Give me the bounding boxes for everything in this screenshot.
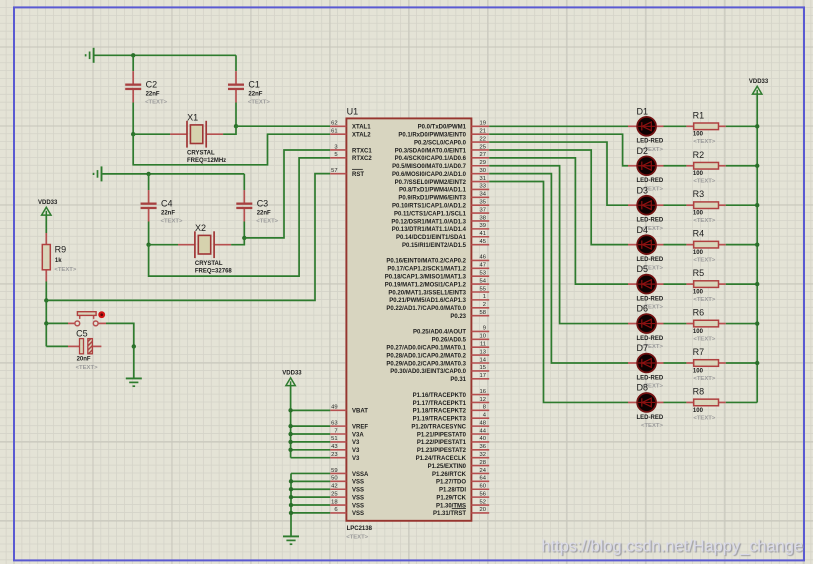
svg-text:6: 6 — [334, 507, 337, 513]
wire top rail ground to C1 — [95, 54, 237, 56]
svg-text:FREQ=12MHz: FREQ=12MHz — [187, 158, 226, 164]
svg-text:P1.23/PIPESTAT2: P1.23/PIPESTAT2 — [417, 448, 467, 454]
svg-text:P1.31/TRST: P1.31/TRST — [433, 511, 466, 517]
pin 31 P0.7 — [395, 176, 490, 186]
svg-text:P0.6/MOSI0/CAP0.2/AD1.0: P0.6/MOSI0/CAP0.2/AD1.0 — [392, 172, 467, 178]
pin 35 P0.10 — [392, 200, 489, 210]
svg-text:VSSA: VSSA — [352, 472, 369, 478]
power VDD33 (LED rail) — [749, 79, 769, 94]
svg-text:LED-RED: LED-RED — [637, 178, 664, 184]
svg-text:100: 100 — [693, 211, 704, 217]
svg-text:P0.27/AD0.0/CAP0.1/MAT0.1: P0.27/AD0.0/CAP0.1/MAT0.1 — [386, 346, 466, 352]
resistor R5 — [686, 268, 725, 303]
svg-text:D4: D4 — [637, 225, 649, 235]
svg-text:P0.16/EINT0/MAT0.2/CAP0.2: P0.16/EINT0/MAT0.2/CAP0.2 — [386, 259, 466, 265]
pin 3 RTXC1 — [330, 144, 372, 154]
wire junction to ground — [133, 346, 135, 378]
svg-text:27: 27 — [480, 152, 486, 158]
capacitor C5 (polarized) — [68, 328, 101, 371]
wire C1 bottom to XTAL1 node — [235, 103, 237, 127]
svg-text:7: 7 — [334, 428, 337, 434]
svg-text:https://blog.csdn.net/Happy_ch: https://blog.csdn.net/Happy_change — [541, 538, 803, 556]
pin 57 RST — [330, 168, 364, 178]
svg-text:100: 100 — [693, 329, 704, 335]
pin 34 P0.9 — [398, 192, 489, 202]
svg-text:D2: D2 — [637, 146, 649, 156]
svg-text:48: 48 — [480, 420, 486, 426]
wire XTAL1 node to pin 62 — [236, 125, 330, 127]
svg-text:19: 19 — [480, 121, 486, 127]
crystal X2 — [178, 223, 232, 275]
wire C4 bottom to X2 junction — [148, 222, 150, 245]
pin 25 VSS — [330, 491, 364, 501]
svg-text:<TEXT>: <TEXT> — [248, 99, 270, 105]
svg-text:20: 20 — [480, 507, 486, 513]
svg-text:53: 53 — [480, 271, 486, 277]
svg-text:P1.19/TRACEPKT3: P1.19/TRACEPKT3 — [413, 417, 467, 423]
pin 5 RTXC2 — [330, 152, 372, 162]
svg-text:11: 11 — [480, 342, 486, 348]
wire VDD33 rail vertical — [290, 385, 292, 457]
svg-text:<TEXT>: <TEXT> — [76, 365, 98, 371]
svg-text:<TEXT>: <TEXT> — [145, 99, 167, 105]
pin 53 P0.18 — [385, 271, 489, 281]
svg-text:22nF: 22nF — [146, 91, 160, 97]
wire pin to D7 — [489, 174, 628, 363]
svg-text:P0.13/DTR1/MAT1.1/AD1.4: P0.13/DTR1/MAT1.1/AD1.4 — [392, 227, 467, 233]
svg-text:59: 59 — [331, 468, 337, 474]
svg-text:100: 100 — [693, 290, 704, 296]
svg-text:P0.9/RxD1/PWM6/EINT3: P0.9/RxD1/PWM6/EINT3 — [398, 196, 466, 202]
svg-text:<TEXT>: <TEXT> — [54, 267, 76, 273]
pin 48 P1.20 — [411, 420, 489, 430]
svg-text:P1.25/EXTIN0: P1.25/EXTIN0 — [428, 464, 467, 470]
pin 51 V3 — [330, 436, 360, 446]
node junction C2/X1 left — [131, 132, 135, 136]
svg-text:63: 63 — [331, 420, 337, 426]
node junction VSS rail — [289, 503, 293, 507]
svg-text:47: 47 — [480, 263, 486, 269]
node junction VSS rail — [289, 487, 293, 491]
pin 30 P0.6 — [392, 168, 489, 178]
svg-text:1k: 1k — [55, 258, 62, 264]
svg-text:49: 49 — [331, 405, 337, 411]
pin 58 P0.23 — [450, 310, 489, 320]
pin 50 VSS — [330, 476, 364, 486]
pin 14 P0.29 — [386, 357, 489, 367]
pin 47 P0.17 — [387, 263, 489, 273]
pin 19 P0.0 — [418, 121, 490, 131]
node junction button tap — [44, 321, 48, 325]
wire RST net to pin 57 — [46, 174, 330, 301]
wire down to C5 row — [45, 323, 47, 346]
pin 60 P1.28 — [439, 484, 489, 494]
svg-text:P0.19/MAT1.2/MOSI1/CAP1.2: P0.19/MAT1.2/MOSI1/CAP1.2 — [385, 282, 467, 288]
svg-text:<TEXT>: <TEXT> — [693, 297, 715, 303]
svg-text:22nF: 22nF — [161, 210, 175, 216]
wire D6 to R6 — [664, 323, 687, 325]
svg-text:R4: R4 — [693, 229, 705, 239]
svg-text:21: 21 — [480, 128, 486, 134]
pin 49 VBAT — [330, 405, 368, 415]
svg-text:30: 30 — [480, 168, 486, 174]
svg-text:P0.18/CAP1.3/MISO1/MAT1.3: P0.18/CAP1.3/MISO1/MAT1.3 — [385, 275, 467, 281]
resistor R9 — [42, 233, 77, 282]
pin 24 P1.26 — [432, 468, 489, 478]
pin 11 P0.27 — [386, 342, 489, 352]
wire XTAL2 route to pin 61 — [133, 134, 330, 165]
svg-text:P0.15/RI1/EINT2/AD1.5: P0.15/RI1/EINT2/AD1.5 — [402, 243, 467, 249]
node junction R9/RST — [44, 298, 48, 302]
wire X1 right jog to XTAL1 node — [223, 126, 236, 134]
svg-text:R2: R2 — [693, 150, 705, 160]
capacitor C2 — [125, 71, 167, 105]
svg-text:51: 51 — [331, 436, 337, 442]
svg-text:22nF: 22nF — [248, 91, 262, 97]
capacitor C4 — [141, 190, 183, 224]
svg-text:35: 35 — [480, 200, 486, 206]
svg-text:C4: C4 — [161, 198, 173, 208]
svg-text:45: 45 — [480, 239, 486, 245]
svg-text:57: 57 — [331, 168, 337, 174]
svg-text:<TEXT>: <TEXT> — [693, 257, 715, 263]
svg-text:C1: C1 — [248, 79, 260, 89]
wire C4 top — [148, 174, 150, 190]
svg-text:62: 62 — [331, 121, 337, 127]
svg-text:10: 10 — [480, 334, 486, 340]
svg-text:P0.26/AD0.5: P0.26/AD0.5 — [432, 338, 467, 344]
node junction LED rail — [755, 361, 759, 365]
pin 7 V3A — [330, 428, 364, 438]
svg-text:P1.17/TRACEPKT1: P1.17/TRACEPKT1 — [413, 401, 467, 407]
svg-text:60: 60 — [480, 484, 486, 490]
pin 41 P0.14 — [396, 231, 489, 241]
svg-text:RST: RST — [352, 172, 364, 178]
svg-text:LED-RED: LED-RED — [637, 375, 664, 381]
wire VDD33 to pin row 40 — [291, 441, 331, 443]
wire VSS to pin row 46 — [291, 488, 330, 490]
wire to C5 left lead — [46, 345, 68, 347]
wire R8 to rail — [726, 401, 757, 403]
node junction C4 top — [146, 172, 150, 176]
wire X1 left lead to junction — [133, 133, 170, 135]
svg-text:VSS: VSS — [352, 480, 364, 486]
svg-text:P0.12/DSR1/MAT1.0/AD1.3: P0.12/DSR1/MAT1.0/AD1.3 — [391, 219, 466, 225]
node junction VDD rail — [288, 440, 292, 444]
svg-text:XTAL2: XTAL2 — [352, 132, 371, 138]
node junction VSS rail — [289, 495, 293, 499]
svg-text:FREQ=32768: FREQ=32768 — [195, 268, 233, 274]
svg-text:P0.23: P0.23 — [450, 314, 466, 320]
svg-text:P0.17/CAP1.2/SCK1/MAT1.2: P0.17/CAP1.2/SCK1/MAT1.2 — [387, 267, 466, 273]
node junction C5/button ground — [132, 344, 136, 348]
pin 45 P0.15 — [402, 239, 489, 249]
svg-text:RTXC2: RTXC2 — [352, 156, 372, 162]
resistor R2 — [686, 150, 725, 185]
svg-text:22: 22 — [480, 136, 486, 142]
wire R9 bottom to RST node — [45, 282, 47, 301]
svg-text:LED-RED: LED-RED — [637, 336, 664, 342]
pin 20 P1.31 — [433, 507, 489, 517]
wire R2 to rail — [726, 165, 757, 167]
svg-text:41: 41 — [480, 231, 486, 237]
wire D5 to R5 — [664, 283, 687, 285]
svg-text:R3: R3 — [693, 189, 705, 199]
pin 33 P0.8 — [399, 184, 489, 194]
pin 62 XTAL1 — [330, 121, 371, 131]
capacitor C2 leads-wire top — [132, 55, 134, 71]
wire VSS to pin row 47 — [291, 496, 330, 498]
svg-text:43: 43 — [331, 444, 337, 450]
svg-text:P0.10/RTS1/CAP1.0/AD1.2: P0.10/RTS1/CAP1.0/AD1.2 — [392, 204, 467, 210]
resistor R3 — [686, 189, 725, 224]
pin 4 P1.19 — [413, 413, 490, 423]
svg-text:VDD33: VDD33 — [749, 79, 769, 85]
svg-text:<TEXT>: <TEXT> — [161, 218, 183, 224]
pin 25 P0.3 — [395, 144, 489, 154]
svg-text:<TEXT>: <TEXT> — [641, 423, 663, 429]
svg-text:P0.29/AD0.2/CAP0.3/MAT0.3: P0.29/AD0.2/CAP0.3/MAT0.3 — [386, 361, 466, 367]
wire pin to D4 — [489, 150, 628, 245]
wire down to button — [45, 300, 47, 323]
svg-text:R1: R1 — [693, 110, 705, 120]
svg-text:VSS: VSS — [352, 495, 364, 501]
wire VDD33 to pin row 42 — [291, 457, 331, 459]
pin 56 P1.29 — [436, 491, 489, 501]
LED D6 — [628, 304, 664, 351]
push button (reset) — [68, 311, 106, 325]
wire pin to D3 — [489, 142, 628, 205]
pin 39 P0.13 — [392, 223, 489, 233]
wire C3 bottom to RTXC1 node — [243, 222, 245, 238]
svg-text:D8: D8 — [637, 383, 649, 393]
svg-text:P1.18/TRACEPKT2: P1.18/TRACEPKT2 — [413, 409, 467, 415]
svg-text:55: 55 — [480, 286, 486, 292]
svg-text:28: 28 — [480, 460, 486, 466]
svg-text:12: 12 — [480, 397, 486, 403]
svg-text:P0.1/RxD0/PWM3/EINT0: P0.1/RxD0/PWM3/EINT0 — [398, 132, 466, 138]
node junction C2 top — [131, 53, 135, 57]
svg-text:CRYSTAL: CRYSTAL — [187, 151, 215, 157]
node junction LED rail — [755, 321, 759, 325]
node junction C4/X2 left/RTXC2 — [146, 243, 150, 247]
svg-text:D5: D5 — [637, 264, 649, 274]
svg-text:P0.11/CTS1/CAP1.1/SCL1: P0.11/CTS1/CAP1.1/SCL1 — [394, 211, 467, 217]
wire R7 to rail — [726, 362, 757, 364]
wire pin to D5 — [489, 158, 628, 284]
svg-text:LED-RED: LED-RED — [637, 139, 664, 145]
svg-text:VDD33: VDD33 — [282, 371, 302, 377]
node junction LED rail — [755, 242, 759, 246]
pin 21 P0.1 — [398, 128, 489, 138]
ground (C5) — [126, 378, 142, 386]
svg-text:25: 25 — [480, 144, 486, 150]
svg-text:V3: V3 — [352, 456, 360, 462]
pin 9 P0.25 — [413, 326, 489, 336]
wire C2 bottom to X1 junction — [132, 103, 134, 135]
svg-text:P0.22/AD1.7/CAP0.0/MAT0.0: P0.22/AD1.7/CAP0.0/MAT0.0 — [386, 306, 466, 312]
wire VDD33 to pin row 36 — [291, 409, 331, 411]
svg-text:50: 50 — [331, 476, 337, 482]
pin 40 P1.22 — [417, 436, 489, 446]
svg-text:P0.20/MAT1.3/SSEL1/EINT3: P0.20/MAT1.3/SSEL1/EINT3 — [388, 290, 466, 296]
svg-text:17: 17 — [480, 373, 486, 379]
wire VDD33 to pin row 41 — [291, 449, 331, 451]
svg-text:8: 8 — [483, 405, 486, 411]
svg-text:44: 44 — [480, 428, 487, 434]
svg-text:X2: X2 — [195, 223, 206, 233]
resistor R7 — [686, 347, 725, 382]
svg-text:VSS: VSS — [352, 503, 364, 509]
svg-text:XTAL1: XTAL1 — [352, 125, 371, 131]
wire D3 to R3 — [664, 204, 687, 206]
svg-text:16: 16 — [480, 389, 486, 395]
crystal X1 — [170, 112, 226, 164]
svg-text:15: 15 — [480, 365, 486, 371]
svg-text:14: 14 — [480, 357, 487, 363]
wire D1 to R1 — [664, 125, 687, 127]
power VDD33 (IC supply) — [282, 371, 302, 386]
pin 61 XTAL2 — [330, 128, 371, 138]
capacitor C1 — [228, 71, 270, 105]
ground (top-left rail) — [86, 48, 94, 63]
svg-text:R9: R9 — [55, 245, 67, 255]
LED D1 — [628, 106, 664, 152]
svg-text:2: 2 — [483, 302, 486, 308]
wire VSS rail vertical — [290, 473, 292, 536]
wire D4 to R4 — [664, 244, 687, 246]
svg-text:9: 9 — [483, 326, 486, 332]
node junction VSS rail — [289, 511, 293, 515]
wire D8 to R8 — [664, 401, 687, 403]
pin 64 P1.27 — [436, 476, 489, 486]
wire D2 to R2 — [664, 165, 687, 167]
svg-text:<TEXT>: <TEXT> — [693, 336, 715, 342]
wire R5 to rail — [726, 283, 757, 285]
pin 23 V3 — [330, 452, 360, 462]
svg-text:54: 54 — [480, 278, 487, 284]
wire VDD33 LED rail vertical — [756, 95, 758, 403]
svg-text:D3: D3 — [637, 185, 649, 195]
svg-text:P0.2/SCL0/CAP0.0: P0.2/SCL0/CAP0.0 — [414, 140, 467, 146]
pin 46 P0.16 — [386, 255, 489, 265]
svg-text:23: 23 — [331, 452, 337, 458]
svg-text:P0.7/SSEL0/PWM2/EINT2: P0.7/SSEL0/PWM2/EINT2 — [395, 180, 467, 186]
LED D7 — [628, 343, 664, 390]
svg-text:<TEXT>: <TEXT> — [693, 376, 715, 382]
wire pin to D6 — [489, 166, 628, 324]
svg-text:VBAT: VBAT — [352, 409, 368, 415]
node junction VDD rail — [288, 408, 292, 412]
svg-text:46: 46 — [480, 255, 486, 261]
pin 42 VSS — [330, 484, 364, 494]
node junction LED rail — [755, 282, 759, 286]
node junction VDD rail — [288, 432, 292, 436]
wire pin to D2 — [489, 134, 628, 166]
wire R1 to rail — [726, 125, 757, 127]
svg-text:P0.8/TxD1/PWM4/AD1.1: P0.8/TxD1/PWM4/AD1.1 — [399, 188, 467, 194]
svg-text:<TEXT>: <TEXT> — [346, 534, 368, 540]
svg-text:LED-RED: LED-RED — [637, 297, 664, 303]
svg-text:P0.28/AD0.1/CAP0.2/MAT0.2: P0.28/AD0.1/CAP0.2/MAT0.2 — [386, 353, 466, 359]
node junction LED rail — [755, 124, 759, 128]
svg-text:20nF: 20nF — [77, 357, 91, 363]
svg-text:42: 42 — [331, 484, 337, 490]
svg-text:C5: C5 — [76, 328, 88, 338]
svg-text:P1.16/TRACEPKT0: P1.16/TRACEPKT0 — [413, 393, 467, 399]
svg-text:1: 1 — [483, 294, 486, 300]
svg-text:29: 29 — [480, 160, 486, 166]
svg-text:P0.25/AD0.4/AOUT: P0.25/AD0.4/AOUT — [413, 330, 466, 336]
pin 55 P0.20 — [388, 286, 489, 296]
svg-text:22nF: 22nF — [257, 210, 271, 216]
svg-text:P1.28/TDI: P1.28/TDI — [439, 488, 466, 494]
wire D7 to R7 — [664, 362, 687, 364]
pin 8 P1.18 — [413, 405, 490, 415]
svg-text:18: 18 — [331, 499, 337, 505]
svg-text:D6: D6 — [637, 304, 649, 314]
resistor R6 — [686, 308, 725, 343]
wire R3 to rail — [726, 204, 757, 206]
pin 28 P1.25 — [428, 460, 490, 470]
svg-text:P0.14/DCD1/EINT1/SDA1: P0.14/DCD1/EINT1/SDA1 — [396, 235, 467, 241]
wire pin 19 to D1 — [489, 125, 628, 127]
svg-text:V3A: V3A — [352, 432, 364, 438]
LED D5 — [628, 264, 664, 311]
svg-text:VDD33: VDD33 — [38, 200, 58, 206]
svg-text:CRYSTAL: CRYSTAL — [195, 261, 223, 267]
svg-text:P0.5/MISO0/MAT0.1/AD0.7: P0.5/MISO0/MAT0.1/AD0.7 — [392, 164, 467, 170]
LED D3 — [628, 185, 664, 232]
svg-text:<TEXT>: <TEXT> — [693, 139, 715, 145]
pin 16 P1.16 — [413, 389, 490, 399]
node junction VDD rail — [288, 448, 292, 452]
svg-text:P0.0/TxD0/PWM1: P0.0/TxD0/PWM1 — [418, 125, 467, 131]
svg-text:P0.4/SCK0/CAP0.1/AD0.6: P0.4/SCK0/CAP0.1/AD0.6 — [395, 156, 467, 162]
node junction C1/X1 right/XTAL1 — [234, 124, 238, 128]
svg-text:P1.24/TRACECLK: P1.24/TRACECLK — [416, 456, 467, 462]
wire R6 to rail — [726, 323, 757, 325]
svg-text:RTXC1: RTXC1 — [352, 148, 372, 154]
svg-text:P1.29/TCK: P1.29/TCK — [436, 495, 466, 501]
svg-text:<TEXT>: <TEXT> — [693, 179, 715, 185]
wire C3 top — [243, 174, 245, 190]
node junction LED rail — [755, 164, 759, 168]
svg-text:D7: D7 — [637, 343, 649, 353]
power VDD33 (R9 pull-up) — [38, 200, 58, 215]
svg-text:40: 40 — [480, 436, 486, 442]
op-amp U1 body (LPC2138 IC) — [346, 107, 471, 541]
svg-text:U1: U1 — [347, 107, 359, 117]
pin 13 P0.28 — [386, 349, 489, 359]
svg-text:P0.31: P0.31 — [450, 377, 466, 383]
pin 1 P0.21 — [389, 294, 489, 304]
wire to button left terminal — [46, 322, 68, 324]
svg-text:33: 33 — [480, 184, 486, 190]
svg-text:D1: D1 — [637, 106, 649, 116]
svg-text:P1.22/PIPESTAT1: P1.22/PIPESTAT1 — [417, 440, 467, 446]
svg-text:R6: R6 — [693, 308, 705, 318]
svg-text:5: 5 — [334, 152, 337, 158]
pin 32 P1.24 — [416, 452, 490, 462]
svg-text:3: 3 — [334, 144, 337, 150]
svg-text:<TEXT>: <TEXT> — [256, 218, 278, 224]
svg-text:56: 56 — [480, 491, 486, 497]
pin 22 P0.2 — [414, 136, 489, 146]
svg-text:100: 100 — [693, 250, 704, 256]
pin 63 VREF — [330, 420, 368, 430]
svg-text:<TEXT>: <TEXT> — [693, 218, 715, 224]
